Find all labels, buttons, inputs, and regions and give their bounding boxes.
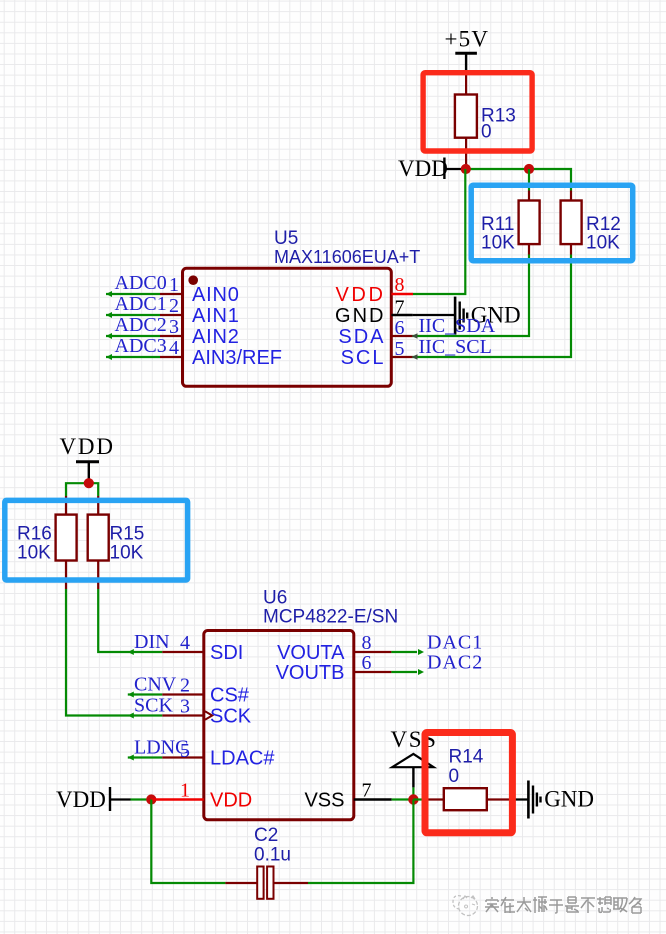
wire R16 to SCK row xyxy=(66,589,162,716)
SEC-BOT xyxy=(151,800,413,899)
svg-text:0.1u: 0.1u xyxy=(254,845,291,866)
SEC-TOP xyxy=(398,27,621,358)
svg-text:AIN3/REF: AIN3/REF xyxy=(192,347,282,369)
svg-text:1: 1 xyxy=(180,780,190,802)
U6 pin 8 VOUTA xyxy=(277,632,391,664)
svg-text:IIC_SCL: IIC_SCL xyxy=(419,336,492,358)
wire VDD rail down to U5 pin8 xyxy=(413,169,465,294)
svg-text:2: 2 xyxy=(180,675,190,697)
svg-text:VDD: VDD xyxy=(210,789,252,811)
node DIN arrow xyxy=(128,649,134,655)
svg-text:5: 5 xyxy=(395,338,405,360)
resistor R15 xyxy=(88,496,145,589)
svg-text:AIN0: AIN0 xyxy=(192,284,240,306)
node DAC1 arrow xyxy=(418,649,424,655)
U5 pin 3 AIN2 xyxy=(160,316,240,348)
svg-text:VDD: VDD xyxy=(60,434,115,459)
node LDNC arrow xyxy=(128,755,134,761)
svg-text:0: 0 xyxy=(449,766,460,787)
svg-text:10K: 10K xyxy=(481,233,515,254)
svg-text:IIC_SDA: IIC_SDA xyxy=(419,315,496,337)
svg-text:MCP4822-E/SN: MCP4822-E/SN xyxy=(263,607,398,628)
resistor R12 xyxy=(561,191,621,255)
于 xyxy=(549,900,563,913)
wire LDNC xyxy=(128,756,163,758)
U5 pin 7 GND xyxy=(335,297,413,327)
svg-text:3: 3 xyxy=(180,696,190,718)
resistor R13 xyxy=(455,72,516,165)
node DAC2 arrow xyxy=(418,669,424,675)
wire VDD junction down to C2 xyxy=(151,800,225,884)
在 xyxy=(501,897,515,913)
svg-text:4: 4 xyxy=(180,632,190,654)
wire pin7 to GND xyxy=(413,314,456,316)
node ADC3 arrow xyxy=(106,354,112,360)
highlight box blue (R11 R12) xyxy=(471,185,633,260)
svg-text:10K: 10K xyxy=(17,543,51,564)
SEC-U6 xyxy=(56,588,594,820)
wire rail to R11 xyxy=(528,169,530,191)
capacitor C2 xyxy=(225,825,308,899)
watermark text (CJK drawn as strokes) xyxy=(485,897,641,913)
svg-text:4: 4 xyxy=(169,337,179,359)
svg-text:GND: GND xyxy=(544,786,594,811)
svg-text:SCL: SCL xyxy=(341,347,386,369)
svg-text:10K: 10K xyxy=(110,543,144,564)
resistor R16 xyxy=(17,496,77,589)
node SCK arrow xyxy=(128,713,134,719)
svg-text:ADC3: ADC3 xyxy=(115,335,167,357)
U5 pin 8 VDD xyxy=(335,274,413,306)
power port VDD (bar, above R16/R15) xyxy=(60,434,115,480)
想 xyxy=(597,897,611,912)
U5 pin 5 SCL xyxy=(341,338,413,369)
svg-text:2: 2 xyxy=(169,295,179,317)
svg-text:SCK: SCK xyxy=(134,695,173,717)
resistor R14 xyxy=(424,747,528,811)
不 xyxy=(581,898,595,913)
power port VSS xyxy=(391,727,438,787)
svg-text:U6: U6 xyxy=(263,588,287,609)
U5 pin 6 SDA xyxy=(338,317,412,348)
wire R13 to VDD rail xyxy=(465,165,467,169)
wire R15 to SDI row xyxy=(98,589,162,652)
svg-text:CNV: CNV xyxy=(134,674,177,696)
node ADC2 arrow xyxy=(106,333,112,339)
svg-text:DAC2: DAC2 xyxy=(427,652,483,674)
svg-text:0: 0 xyxy=(481,122,492,143)
svg-text:R16: R16 xyxy=(17,524,52,545)
svg-text:ADC1: ADC1 xyxy=(115,293,167,315)
svg-text:VDD: VDD xyxy=(335,284,385,306)
svg-text:+5V: +5V xyxy=(445,27,490,52)
IC U5 body xyxy=(183,268,392,386)
wire ADC3 xyxy=(106,356,160,358)
svg-text:VOUTB: VOUTB xyxy=(276,662,345,684)
svg-text:R15: R15 xyxy=(110,524,145,545)
wire CNV xyxy=(128,693,163,695)
svg-text:MAX11606EUA+T: MAX11606EUA+T xyxy=(274,247,420,267)
svg-text:SCK: SCK xyxy=(210,705,252,727)
wire C2 to VSS junction xyxy=(308,800,413,884)
SEC-WM xyxy=(453,896,641,916)
wire DAC2 xyxy=(391,671,417,673)
svg-text:5: 5 xyxy=(180,740,190,762)
IC U6 body xyxy=(204,631,354,820)
highlight box blue (R16 R15) xyxy=(5,500,188,580)
power port +5V xyxy=(445,27,490,73)
junction dot VDD rail right xyxy=(524,164,534,174)
svg-text:3: 3 xyxy=(169,316,179,338)
svg-text:VDD: VDD xyxy=(398,156,448,181)
pin end marker SDA xyxy=(412,333,418,339)
ground symbol GND (U5) xyxy=(455,297,521,335)
U6 pin 2 CS# xyxy=(162,675,249,707)
wire ADC0 xyxy=(106,293,160,295)
highlight box red (R13) xyxy=(423,73,532,151)
U6 pin 7 VSS xyxy=(304,780,391,812)
wire VDD to R16/R15 xyxy=(66,483,98,496)
wire DAC1 xyxy=(391,651,417,653)
SEC-U5 xyxy=(106,228,521,386)
svg-text:VOUTA: VOUTA xyxy=(277,642,345,664)
U6 pin 4 SDI xyxy=(162,632,243,664)
svg-text:CS#: CS# xyxy=(210,684,250,706)
懒 xyxy=(533,897,547,913)
svg-text:6: 6 xyxy=(362,652,372,674)
svg-text:SDA: SDA xyxy=(338,326,385,348)
svg-text:DAC1: DAC1 xyxy=(427,632,483,654)
U5 pin 1 AIN0 xyxy=(160,274,240,306)
wire ADC2 xyxy=(106,335,160,337)
U5 pin 2 AIN1 xyxy=(160,295,240,327)
wire R12 down to SCL net xyxy=(413,255,571,358)
watermark logo xyxy=(453,896,478,916)
svg-text:GND: GND xyxy=(335,305,385,327)
wire VDD rail xyxy=(465,169,571,191)
junction dot VSS xyxy=(408,794,418,804)
power port VDD (top) xyxy=(398,156,462,181)
svg-text:U5: U5 xyxy=(274,228,298,249)
名 xyxy=(629,897,641,913)
太 xyxy=(517,897,531,912)
wire VDD port to rail xyxy=(462,168,465,170)
svg-text:8: 8 xyxy=(362,632,372,654)
junction dot VDD rail left xyxy=(461,164,471,174)
resistor R11 xyxy=(481,191,540,255)
U5 pin 4 AIN3/REF xyxy=(160,337,282,369)
U6 pin 1 VDD xyxy=(151,780,252,812)
svg-text:10K: 10K xyxy=(586,233,620,254)
svg-text:7: 7 xyxy=(362,780,372,802)
U6 pin 5 LDAC# xyxy=(162,740,275,769)
node CNV arrow xyxy=(128,692,134,698)
wire VSS stem to junction xyxy=(412,787,414,795)
svg-text:8: 8 xyxy=(395,274,405,296)
wire pin7 to junction xyxy=(392,798,409,800)
SEC-BOXES xyxy=(5,73,633,833)
svg-text:6: 6 xyxy=(395,317,405,339)
svg-text:1: 1 xyxy=(169,274,179,296)
junction dot VDD mid xyxy=(84,478,94,488)
node ADC1 arrow xyxy=(106,312,112,318)
power port VDD (bottom left) xyxy=(56,787,131,812)
svg-text:VDD: VDD xyxy=(56,787,106,812)
svg-text:AIN2: AIN2 xyxy=(192,326,240,348)
SEC-MID xyxy=(17,434,162,716)
取 xyxy=(613,898,627,912)
svg-text:C2: C2 xyxy=(254,825,278,846)
U6 pin 6 VOUTB xyxy=(276,652,392,684)
wire junction to R14 xyxy=(413,798,424,800)
svg-text:AIN1: AIN1 xyxy=(192,305,240,327)
wire ADC1 xyxy=(106,314,160,316)
node ADC0 arrow xyxy=(106,291,112,297)
svg-text:DIN: DIN xyxy=(134,631,170,653)
wire R11 down to SDA net xyxy=(413,255,529,337)
svg-text:ADC2: ADC2 xyxy=(115,314,167,336)
svg-text:LDAC#: LDAC# xyxy=(210,747,275,769)
junction dot VDD pin1 xyxy=(146,794,156,804)
svg-text:SDI: SDI xyxy=(210,642,243,664)
highlight box red (R14) xyxy=(425,733,512,833)
svg-text:7: 7 xyxy=(395,297,405,319)
实 xyxy=(485,897,499,912)
是 xyxy=(565,897,579,912)
svg-text:VSS: VSS xyxy=(304,789,344,811)
svg-text:R14: R14 xyxy=(449,747,484,768)
U6 pin 3 SCK xyxy=(162,696,251,728)
svg-text:ADC0: ADC0 xyxy=(115,272,167,294)
wire VDD port to junction xyxy=(131,798,152,800)
pin end marker SCL xyxy=(412,354,418,360)
U5 designator dot xyxy=(188,275,198,285)
ground symbol GND (R14) xyxy=(528,781,594,819)
